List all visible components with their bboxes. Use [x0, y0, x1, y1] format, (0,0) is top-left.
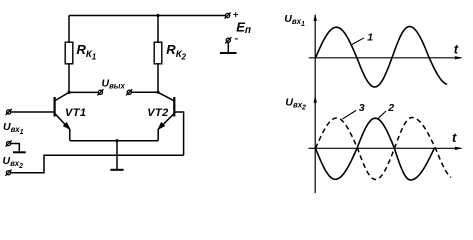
wire RK1 to collector node	[68, 64, 70, 93]
svg-text:3: 3	[359, 102, 365, 114]
graph 2 horizontal axis	[308, 147, 461, 149]
label 3 leader	[343, 111, 357, 120]
terminal Uin2	[5, 170, 11, 176]
wire VT2 base lead	[174, 112, 183, 155]
label 1 leader	[352, 38, 364, 45]
label 2 leader	[378, 111, 386, 118]
svg-text:t: t	[454, 42, 459, 57]
resistor RK2	[154, 42, 162, 64]
node emitter bus center	[115, 139, 118, 142]
curve 1	[316, 27, 447, 88]
wire input common	[11, 144, 20, 152]
svg-text:2: 2	[387, 102, 394, 114]
graph 1 vertical axis (shared line)	[314, 15, 316, 193]
node VT2 collector junction	[156, 91, 159, 94]
graph 2 vertical axis arrow	[314, 95, 317, 103]
wire right branch top	[157, 16, 159, 43]
svg-text:1: 1	[367, 32, 373, 44]
wire emitter bus	[70, 140, 158, 142]
wire VT1 base lead	[11, 111, 55, 113]
curve 2 solid	[316, 118, 435, 180]
wire Ep ground stem	[227, 43, 229, 53]
terminal +Ep	[225, 12, 231, 18]
terminal -Ep	[225, 37, 231, 43]
node VT1 collector junction	[67, 91, 70, 94]
wire ground stem	[116, 141, 118, 170]
curve 3 dashed	[316, 118, 452, 180]
transistor VT1	[55, 92, 70, 140]
ground emitters	[110, 169, 123, 171]
wire Uout right terminal to node	[132, 91, 159, 93]
terminal Uout left	[97, 89, 103, 95]
wire Uin2 to VT2 base	[11, 155, 184, 172]
resistor RK1	[65, 42, 73, 64]
svg-text:t: t	[452, 130, 457, 145]
terminal Uout right	[126, 89, 132, 95]
terminal common input	[6, 140, 12, 146]
ground Ep	[220, 52, 237, 54]
svg-text:VT2: VT2	[147, 107, 168, 119]
graph 1 horizontal axis	[309, 57, 461, 59]
transistor VT2	[158, 92, 174, 140]
wire top rail	[69, 15, 226, 17]
node top rail junction	[156, 14, 159, 17]
wire RK2 to collector node	[157, 64, 159, 93]
ground input common	[13, 151, 26, 153]
wire node to Uout left terminal	[69, 91, 98, 93]
terminal Uin1	[6, 109, 12, 115]
svg-text:VT1: VT1	[65, 107, 86, 119]
wire left branch top	[68, 16, 70, 43]
